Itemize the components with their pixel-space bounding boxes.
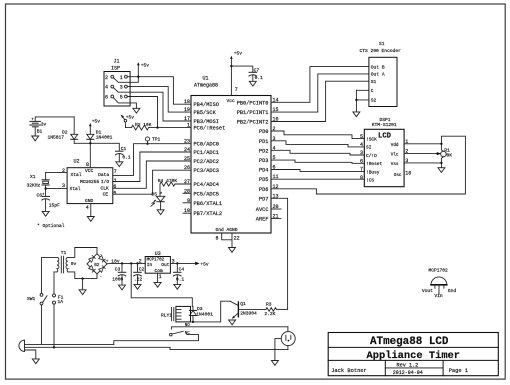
junction dot encoder [355, 99, 357, 101]
svg-text:Vout: Vout [422, 288, 433, 294]
svg-text:In: In [147, 262, 153, 268]
svg-text:PC6/!Reset: PC6/!Reset [194, 126, 226, 132]
svg-text:+5v: +5v [92, 118, 101, 124]
ground (D5) [157, 210, 164, 215]
resistor R3 2.2K [264, 301, 287, 317]
ground (C3) [119, 285, 126, 290]
svg-text:2012-04-04: 2012-04-04 [393, 370, 423, 376]
svg-text:0.1: 0.1 [176, 277, 185, 283]
ground (bridge) [79, 290, 86, 295]
svg-text:!SCK: !SCK [366, 136, 377, 142]
wire U2 Data to U1 PC0 [113, 144, 191, 176]
svg-text:1N4001: 1N4001 [196, 311, 213, 317]
svg-text:7: 7 [235, 87, 238, 93]
svg-text:!CS: !CS [366, 177, 374, 183]
svg-text:PB2/PCINT2: PB2/PCINT2 [237, 120, 269, 126]
wire U1 PD1 to LCD SI [271, 141, 364, 147]
power +5v (R2 pullup) [121, 115, 135, 122]
svg-text:I/O: I/O [101, 179, 110, 185]
capacitor C7 0.1 [231, 66, 263, 81]
svg-text:Xtal: Xtal [71, 172, 82, 178]
transformer T1 [43, 248, 98, 279]
svg-text:5: 5 [113, 190, 116, 196]
svg-text:C7: C7 [254, 67, 260, 73]
wire regulator out to +5v [170, 262, 195, 264]
svg-text:Out: Out [161, 262, 170, 268]
wire plug neutral run [25, 347, 288, 349]
svg-text:PC5/ADC5: PC5/ADC5 [194, 191, 219, 197]
svg-text:PD5: PD5 [259, 177, 269, 183]
svg-text:!Busy: !Busy [366, 169, 380, 175]
AC plug P1 [19, 340, 36, 359]
wire LCD Vss to pot bottom [404, 162, 441, 164]
svg-text:C6*: C6* [37, 193, 46, 199]
wire pot to ground [440, 163, 442, 168]
svg-text:D3: D3 [197, 306, 203, 312]
wire relay feed branch [130, 262, 132, 264]
svg-text:PD3: PD3 [259, 158, 269, 164]
svg-text:ATmega88 LCD: ATmega88 LCD [370, 336, 449, 348]
svg-text:-: - [100, 253, 103, 257]
svg-text:PC3/ADC3: PC3/ADC3 [194, 168, 219, 174]
svg-text:S1: S1 [379, 41, 385, 47]
svg-text:* Optional: * Optional [37, 223, 65, 229]
svg-text:3: 3 [120, 85, 123, 91]
svg-text:Gnd: Gnd [448, 288, 457, 294]
svg-text:AVCC: AVCC [256, 207, 269, 213]
svg-text:B1: B1 [37, 129, 43, 135]
wire J1 pin2 to +5v [130, 66, 138, 82]
wire U2 CE to U1 PC3 [113, 170, 191, 194]
fuse F1 1A [53, 272, 64, 347]
svg-text:TP1: TP1 [152, 137, 161, 143]
svg-text:9v: 9v [71, 261, 77, 267]
svg-text:Out B: Out B [371, 64, 385, 70]
power +5v (D1) [89, 118, 100, 126]
svg-text:0.1: 0.1 [255, 75, 264, 81]
rotary encoder S1 CTS 290 [360, 41, 402, 107]
svg-text:2N3904: 2N3904 [240, 311, 257, 317]
svg-text:+5v: +5v [126, 115, 135, 121]
U1 ground pins 8 and 22 [216, 233, 240, 248]
capacitor C1 0.1 [116, 146, 131, 162]
wire U1 PD5 to LCD CS [271, 178, 364, 180]
svg-text:B2: B2 [94, 264, 100, 268]
bridge rectifier B2 [87, 253, 107, 279]
MCP1702 package pinout [422, 267, 457, 298]
ground (outlet) [271, 361, 278, 366]
svg-text:PC4/ADC4: PC4/ADC4 [194, 182, 219, 188]
wire U1 PD3 to LCD Reset [271, 160, 364, 163]
wire U1 PB0 to encoder Out B [271, 67, 369, 103]
svg-text:Vin: Vin [434, 293, 443, 299]
ground (C2) [134, 284, 141, 289]
svg-text:PB4/MISO: PB4/MISO [194, 102, 219, 108]
svg-text:PD7: PD7 [259, 196, 269, 202]
svg-text:C2: C2 [139, 266, 145, 272]
svg-text:2: 2 [105, 75, 108, 81]
ground (C7) [249, 81, 256, 86]
U1 pin stubs 28 9 10 20 21 [183, 193, 281, 218]
svg-text:1000: 1000 [112, 277, 123, 283]
capacitor C3 1000 [112, 262, 126, 285]
svg-text:+5v: +5v [141, 62, 150, 68]
U1 left pin labels [194, 102, 226, 217]
wire U1 PB1 to encoder Out A [271, 74, 369, 112]
capacitor C2 .22 [134, 262, 145, 284]
svg-text:LCD: LCD [378, 133, 392, 141]
svg-text:Out A: Out A [371, 72, 385, 78]
diode D2 1N5817 [48, 117, 78, 143]
crystal X1 32KHz [27, 173, 50, 197]
ground (C4) [174, 284, 181, 289]
svg-text:Vcc: Vcc [227, 98, 236, 104]
RTC U2 [62, 159, 117, 211]
wire U1 PD7 down to R3 [271, 198, 288, 309]
svg-text:17: 17 [184, 116, 190, 122]
title block [328, 333, 498, 377]
svg-text:CE: CE [103, 192, 109, 198]
U1 right pin labels [237, 100, 269, 222]
svg-text:T1: T1 [61, 250, 67, 256]
svg-text:19: 19 [184, 107, 190, 113]
U1 left pin numbers [184, 99, 190, 214]
svg-text:Xtal: Xtal [70, 186, 81, 192]
svg-text:5: 5 [120, 95, 123, 101]
ground (Q1 emitter) [229, 320, 236, 325]
svg-text:8: 8 [216, 235, 219, 241]
ground (U1) [229, 248, 236, 253]
MCU U1 ATmega88 [191, 76, 271, 234]
wire LCD Vlc to pot wiper [404, 153, 438, 155]
wire crystal to U2 Xtal pins [46, 173, 68, 189]
svg-text:7: 7 [360, 167, 363, 173]
svg-text:ATmega88: ATmega88 [194, 83, 218, 89]
wire U1 PB2 to encoder S1 [271, 81, 369, 121]
LCD module DSP1 KTM-S1201 [360, 117, 411, 187]
svg-text:U2: U2 [74, 159, 80, 165]
svg-text:Data: Data [98, 172, 109, 178]
svg-text:PD2: PD2 [259, 148, 269, 154]
svg-text:Rev 1.2: Rev 1.2 [397, 363, 419, 369]
junction dot [137, 76, 139, 78]
svg-text:PD4: PD4 [259, 168, 269, 174]
svg-text:C: C [371, 88, 374, 94]
svg-text:1: 1 [187, 123, 190, 129]
ground (plug) [32, 359, 39, 364]
svg-text:2: 2 [139, 259, 142, 265]
svg-text:SI: SI [366, 145, 372, 151]
wire LCD Vdd to pot top [404, 143, 441, 145]
svg-text:NO: NO [185, 324, 191, 328]
svg-text:Appliance Timer: Appliance Timer [367, 350, 461, 362]
svg-text:C/!D: C/!D [366, 153, 377, 159]
svg-text:-: - [100, 276, 103, 280]
svg-text:PB6/XTAL1: PB6/XTAL1 [194, 201, 223, 207]
svg-text:15pF: 15pF [49, 203, 60, 209]
svg-text:1N5817: 1N5817 [48, 135, 65, 141]
ground (encoder) [353, 112, 360, 117]
power +5v (regulator output) [195, 262, 209, 268]
svg-text:CTS 290 Encoder: CTS 290 Encoder [360, 48, 402, 54]
ground (C1) [116, 162, 123, 167]
svg-text:ISP: ISP [111, 66, 120, 72]
wire plug hot to SW1 and NC [25, 343, 114, 345]
svg-text:22: 22 [234, 235, 240, 241]
svg-text:Osc: Osc [394, 173, 402, 178]
svg-text:C3: C3 [115, 266, 121, 272]
svg-text:R2 10K: R2 10K [135, 122, 152, 128]
svg-text:R1: R1 [444, 147, 450, 153]
resistor R4 470 on PC4 [158, 178, 191, 196]
resistor R2 10K pullup on reset [125, 122, 191, 130]
svg-text:1: 1 [120, 75, 123, 81]
svg-text:Vss: Vss [391, 162, 399, 167]
svg-text:U1: U1 [203, 76, 209, 82]
diode D3 1N4001 flyback [190, 306, 214, 322]
svg-text:PC1/ADC1: PC1/ADC1 [194, 150, 219, 156]
svg-text:16: 16 [405, 171, 411, 177]
svg-text:6: 6 [113, 184, 116, 190]
wire J1 pin1 to U1 PB4/MISO [127, 77, 191, 105]
svg-text:4: 4 [360, 142, 363, 148]
ground (battery) [32, 136, 39, 141]
AC outlet J2 [275, 327, 295, 361]
svg-text:3v: 3v [41, 121, 47, 127]
svg-text:0K: 0K [447, 153, 453, 159]
wire U2 CLK to U1 PC2 [113, 161, 191, 188]
wire U2 I/O to U1 PC1 [113, 152, 191, 182]
svg-text:PC0/ADC0: PC0/ADC0 [194, 142, 219, 148]
wire bridge minus to ground [82, 279, 84, 290]
svg-text:.22: .22 [134, 277, 143, 283]
svg-text:8: 8 [360, 175, 363, 181]
wire J1 pin5 to U1 PC6/Reset [127, 97, 157, 128]
svg-text:X1: X1 [30, 174, 36, 180]
svg-text:+ 18v: + 18v [106, 258, 120, 264]
svg-text:RLY1: RLY1 [161, 312, 172, 318]
wire Vbackup rail to C1 [74, 143, 119, 151]
wire J1 pin3 to U1 PB5/SCK [127, 87, 191, 113]
wire J1 pin6 to ground [130, 103, 136, 108]
wire U1 PD4 to LCD Busy [271, 170, 364, 172]
svg-text:4: 4 [86, 205, 89, 211]
svg-text:NC: NC [185, 332, 191, 336]
relay RLY1 coil [161, 306, 191, 322]
ground (U3) [154, 282, 161, 287]
U1 right pin numbers [273, 97, 279, 219]
transistor Q1 2N3904 [230, 301, 266, 319]
svg-text:PB5/SCK: PB5/SCK [194, 110, 217, 116]
U1 Vcc pin7 wire [230, 60, 232, 96]
wire U2 GND pin4 [90, 204, 92, 217]
svg-text:7: 7 [114, 169, 117, 175]
svg-text:1A: 1A [58, 299, 64, 305]
svg-text:AREF: AREF [256, 217, 269, 223]
svg-text:PD1: PD1 [259, 139, 269, 145]
svg-text:8: 8 [86, 162, 89, 168]
photodiode D5 [151, 192, 165, 210]
svg-text:3: 3 [360, 150, 363, 156]
svg-text:!Reset: !Reset [366, 161, 383, 167]
svg-text:R3: R3 [266, 301, 272, 307]
regulator U3 MCP1702 [139, 251, 175, 282]
svg-text:PD6: PD6 [259, 187, 269, 193]
svg-text:MCP1702: MCP1702 [147, 259, 165, 263]
junction dot C7 branch [230, 65, 232, 67]
wire U1 PD6 to LCD Vdd loop [271, 136, 465, 194]
svg-text:S1: S1 [371, 79, 377, 85]
svg-text:MCU6255: MCU6255 [80, 179, 100, 185]
svg-text:J1: J1 [114, 59, 120, 65]
test point TP1 [145, 137, 160, 145]
svg-text:GND: GND [85, 198, 94, 204]
svg-text:Q1: Q1 [240, 301, 246, 307]
svg-text:PB0/PCINT0: PB0/PCINT0 [237, 100, 269, 106]
capacitor C4 0.1 [174, 262, 185, 284]
svg-text:2: 2 [62, 168, 65, 174]
svg-text:4: 4 [105, 85, 108, 91]
switch SW1 [27, 257, 47, 344]
svg-text:MCP1702: MCP1702 [429, 267, 449, 273]
wire U1 PD0 to LCD SCK [271, 131, 364, 139]
svg-text:6: 6 [360, 159, 363, 165]
svg-text:PB7/XTAL2: PB7/XTAL2 [194, 211, 223, 217]
svg-text:PB3/MOSI: PB3/MOSI [194, 119, 219, 125]
svg-text:PC2/ADC2: PC2/ADC2 [194, 159, 219, 165]
relay contacts NO NC [114, 324, 288, 344]
potentiometer R1 10K [441, 144, 453, 163]
wire J1 pin4 to U1 PB3/MOSI [130, 92, 191, 121]
diode D1 1N4001 [87, 126, 113, 167]
svg-text:SW1: SW1 [27, 296, 36, 302]
svg-text:S2: S2 [371, 98, 377, 104]
svg-text:PD0: PD0 [259, 129, 269, 135]
power +5v (U1) [230, 51, 242, 59]
svg-text:18: 18 [184, 99, 190, 105]
svg-text:Gnd AGND: Gnd AGND [216, 227, 238, 233]
wire coil bottom to Q1 collector [191, 301, 231, 322]
svg-text:1: 1 [159, 274, 162, 280]
svg-text:VCC: VCC [85, 168, 94, 174]
battery B1 3v [30, 117, 74, 136]
svg-text:0.1: 0.1 [122, 155, 131, 161]
svg-text:1N4001: 1N4001 [96, 135, 113, 141]
connector J1 ISP [104, 59, 130, 107]
svg-text:CLK: CLK [101, 186, 110, 192]
svg-text:5: 5 [360, 134, 363, 140]
junction dot reset row [156, 126, 158, 128]
svg-text:+5v: +5v [200, 262, 209, 268]
svg-text:2.2K: 2.2K [264, 311, 275, 317]
svg-text:C4: C4 [179, 266, 185, 272]
ground (C6) [42, 211, 49, 216]
power +5v (J1) [137, 62, 149, 68]
svg-text:32KHz: 32KHz [27, 182, 41, 188]
capacitor C6 15pF [37, 193, 61, 212]
wire encoder C and S2 to ground [356, 90, 369, 112]
ground (pot R1) [438, 168, 445, 173]
svg-text:Jack Botner: Jack Botner [331, 368, 367, 374]
svg-text:PB1/PCINT1: PB1/PCINT1 [237, 110, 269, 116]
ground (J1) [133, 108, 140, 113]
wire U1 PD2 to LCD C/D [271, 150, 364, 155]
svg-text:Page 1: Page 1 [449, 368, 468, 374]
ground (U2) [87, 217, 94, 222]
svg-text:6: 6 [105, 95, 108, 101]
svg-text:KTM-S1201: KTM-S1201 [372, 122, 397, 128]
svg-text:Vlc: Vlc [391, 153, 399, 158]
svg-text:+5v: +5v [234, 51, 243, 57]
junction dot secondary ground tap [81, 277, 83, 279]
wire bridge + to regulator rail [107, 262, 145, 265]
junction dot fuse/neutral [53, 346, 55, 348]
svg-text:Vdd: Vdd [391, 143, 399, 148]
